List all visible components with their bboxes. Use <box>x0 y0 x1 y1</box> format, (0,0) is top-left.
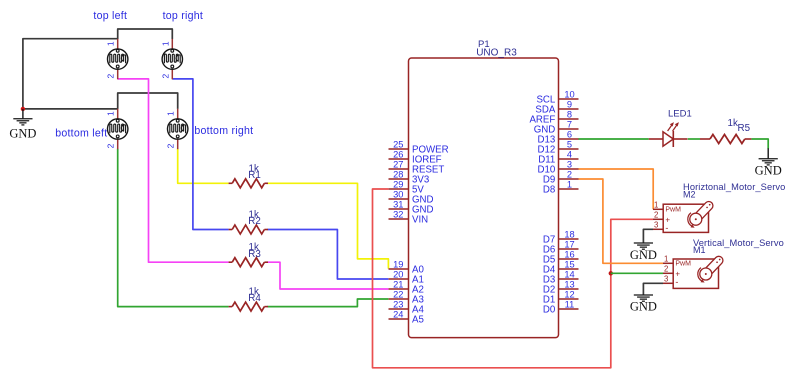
svg-text:2: 2 <box>166 143 176 148</box>
svg-text:31: 31 <box>393 200 403 210</box>
svg-text:top right: top right <box>163 10 204 22</box>
svg-text:17: 17 <box>564 240 574 250</box>
svg-text:bottom left: bottom left <box>55 127 107 139</box>
svg-text:1: 1 <box>664 255 668 264</box>
svg-text:2: 2 <box>664 265 668 274</box>
svg-text:PwM: PwM <box>665 207 681 214</box>
svg-text:2: 2 <box>106 143 116 148</box>
svg-text:6: 6 <box>567 130 572 140</box>
svg-text:8: 8 <box>567 110 572 120</box>
svg-text:M2: M2 <box>683 189 696 199</box>
svg-text:GND: GND <box>630 300 657 314</box>
svg-text:24: 24 <box>393 310 403 320</box>
svg-text:-: - <box>665 223 668 233</box>
svg-text:5: 5 <box>567 140 572 150</box>
svg-text:LED1: LED1 <box>668 109 692 120</box>
svg-text:M1: M1 <box>693 245 706 255</box>
svg-text:19: 19 <box>393 260 403 270</box>
svg-text:1: 1 <box>106 41 116 46</box>
svg-text:13: 13 <box>564 280 574 290</box>
svg-text:11: 11 <box>565 300 575 310</box>
svg-text:R2: R2 <box>248 216 261 227</box>
svg-text:21: 21 <box>393 280 403 290</box>
svg-text:R1: R1 <box>248 170 261 181</box>
svg-text:18: 18 <box>564 230 574 240</box>
svg-text:Vertical_Motor_Servo: Vertical_Motor_Servo <box>693 238 784 248</box>
svg-text:9: 9 <box>567 100 572 110</box>
svg-text:3: 3 <box>654 221 658 230</box>
svg-text:A5: A5 <box>412 314 424 325</box>
svg-text:2: 2 <box>567 170 572 180</box>
svg-text:1: 1 <box>106 111 116 116</box>
svg-text:1: 1 <box>166 111 176 116</box>
svg-text:GND: GND <box>755 163 782 177</box>
svg-text:20: 20 <box>393 270 403 280</box>
svg-text:1: 1 <box>160 41 170 46</box>
svg-text:top left: top left <box>93 10 127 22</box>
svg-text:bottom right: bottom right <box>194 125 253 137</box>
svg-text:28: 28 <box>393 170 403 180</box>
svg-text:2: 2 <box>654 211 658 220</box>
svg-text:26: 26 <box>393 150 403 160</box>
svg-text:3: 3 <box>567 160 572 170</box>
svg-text:R4: R4 <box>248 293 261 304</box>
svg-text:UNO_R3: UNO_R3 <box>476 48 517 59</box>
svg-text:-: - <box>675 277 678 287</box>
svg-text:23: 23 <box>393 300 403 310</box>
svg-text:3: 3 <box>664 275 668 284</box>
svg-text:D0: D0 <box>543 304 556 315</box>
svg-text:R5: R5 <box>738 123 751 134</box>
svg-text:4: 4 <box>567 150 572 160</box>
svg-text:R3: R3 <box>248 249 261 260</box>
svg-text:Horiztonal_Motor_Servo: Horiztonal_Motor_Servo <box>683 182 785 192</box>
svg-text:16: 16 <box>564 250 574 260</box>
svg-text:1k: 1k <box>728 118 738 129</box>
svg-text:1: 1 <box>567 180 572 190</box>
svg-text:2: 2 <box>106 74 116 79</box>
svg-text:10: 10 <box>564 90 574 100</box>
svg-text:27: 27 <box>393 160 403 170</box>
svg-text:32: 32 <box>393 210 403 220</box>
svg-text:GND: GND <box>630 248 657 262</box>
svg-text:15: 15 <box>564 260 574 270</box>
svg-text:D8: D8 <box>543 184 555 195</box>
svg-text:30: 30 <box>393 190 403 200</box>
svg-text:VIN: VIN <box>412 214 428 225</box>
svg-text:14: 14 <box>564 270 574 280</box>
svg-text:7: 7 <box>567 120 572 130</box>
svg-text:GND: GND <box>9 127 36 141</box>
svg-text:12: 12 <box>564 290 574 300</box>
svg-text:25: 25 <box>393 140 403 150</box>
svg-text:22: 22 <box>393 290 403 300</box>
svg-text:2: 2 <box>160 74 170 79</box>
svg-text:1: 1 <box>654 201 658 210</box>
svg-text:29: 29 <box>393 180 403 190</box>
svg-text:PwM: PwM <box>675 261 691 268</box>
